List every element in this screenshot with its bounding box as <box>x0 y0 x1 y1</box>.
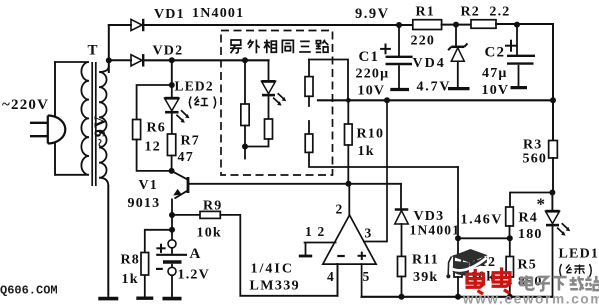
resistor R5 850 <box>506 257 513 278</box>
node top rail / C1 <box>396 22 402 28</box>
ground (transformer secondary) <box>98 294 118 299</box>
wire right column upper stub (dead end) <box>308 96 310 106</box>
transformer T primary winding <box>55 62 89 175</box>
svg-text:R11: R11 <box>412 253 439 268</box>
resistor R1 220 <box>413 20 442 30</box>
svg-text:39k: 39k <box>413 270 438 285</box>
ground foot (VD4) <box>448 87 470 90</box>
transformer T secondary winding <box>99 66 109 186</box>
wire pin2 output riser <box>348 184 350 215</box>
wire pin4 inverting input <box>337 264 339 296</box>
svg-text:220μ: 220μ <box>356 67 390 82</box>
svg-text:R3: R3 <box>523 138 543 153</box>
svg-text:1k: 1k <box>122 272 139 287</box>
svg-text:R4: R4 <box>519 211 539 226</box>
node VCC line / R3 branch <box>550 97 556 103</box>
svg-text:220: 220 <box>411 34 436 49</box>
svg-text:R2 2.2: R2 2.2 <box>461 5 511 20</box>
resistor channel2 left (replica) <box>241 104 249 126</box>
diode VD2 1N4001 <box>131 54 143 66</box>
resistor R11 39k <box>398 256 406 276</box>
wire V1 base line to comparator output node <box>189 183 349 185</box>
wire top rail from VD1 anode corner to R1 <box>109 24 131 26</box>
svg-text:C2: C2 <box>485 45 506 61</box>
resistor R8 1k <box>141 253 149 276</box>
wire VCC line (post-R2 supply) <box>318 99 553 101</box>
resistor channel2 right (replica) <box>265 119 273 139</box>
transistor V1 9013 <box>172 171 188 215</box>
svg-text:4.7V: 4.7V <box>417 80 452 95</box>
wire channel2 right branch corner <box>268 60 270 80</box>
svg-text:VD4: VD4 <box>413 56 446 71</box>
LED2 red indicator <box>165 98 190 123</box>
svg-text:*: * <box>537 195 546 214</box>
node channel2 bottom <box>242 144 248 150</box>
svg-text:10V: 10V <box>358 84 386 99</box>
svg-text:V1: V1 <box>139 178 159 193</box>
svg-text:4: 4 <box>327 269 335 284</box>
wire R3 bottom to LED1 node <box>552 158 554 193</box>
svg-text:VD2: VD2 <box>153 44 184 59</box>
wire R9 to LM339 pin 4 <box>220 215 337 296</box>
wire pin12 ground lead <box>305 242 336 244</box>
node battery / R8 split <box>169 227 175 233</box>
wire LED1 anode <box>551 193 553 211</box>
watermark red bug characters <box>466 269 485 294</box>
node R4 / R5 <box>507 235 513 241</box>
resistor R10 1k <box>345 124 353 145</box>
svg-text:R1: R1 <box>416 5 436 20</box>
wire LED1 cathode to ground rail <box>552 227 554 297</box>
LED1 green indicator <box>546 211 571 235</box>
svg-text:1N4001: 1N4001 <box>410 223 461 238</box>
node comparator output / R10 / base line <box>346 181 352 187</box>
wire emitter node to R9 <box>172 214 200 216</box>
node ground rail / R11 <box>399 294 405 300</box>
dashed box: other three identical channels <box>221 31 333 176</box>
svg-text:C1: C1 <box>359 49 380 65</box>
node VD2 line / LED2 branch <box>169 57 175 63</box>
wire top rail R1 to R2 <box>442 24 471 26</box>
resistor R12 10k <box>454 256 462 277</box>
ground (R8) <box>136 275 153 298</box>
capacitor C2 47u 10V <box>507 56 535 88</box>
svg-text:1 2: 1 2 <box>305 224 325 239</box>
resistor R6 12 <box>133 120 141 140</box>
svg-text:47: 47 <box>178 150 194 165</box>
wire bottom ground rail <box>362 296 553 298</box>
svg-text:R7: R7 <box>181 134 201 149</box>
wire R11 bottom to ground rail <box>401 277 403 297</box>
wire pin3 VCC lead <box>364 100 387 241</box>
zener diode VD4 4.7V <box>448 43 467 61</box>
wire R4 bottom to node <box>509 226 511 238</box>
ground (battery) <box>163 295 182 299</box>
wire plug to primary top <box>54 62 56 116</box>
wire node to R4 branch <box>510 193 552 208</box>
capacitor C1 220u 10V <box>386 57 413 90</box>
svg-text:180: 180 <box>518 227 543 242</box>
svg-text:2: 2 <box>336 202 344 217</box>
node R3 / LED1 / R4 <box>549 190 555 196</box>
wire top rail VD1 cathode to R1 <box>145 24 413 26</box>
wire node to R5 <box>509 238 511 256</box>
svg-text:1k: 1k <box>358 144 375 159</box>
svg-text:LM339: LM339 <box>250 279 301 294</box>
node 1.46V (R12/R4 junction) <box>455 235 461 241</box>
svg-text:12: 12 <box>145 140 161 155</box>
svg-text:1.2V: 1.2V <box>178 268 210 283</box>
node top rail / C2 <box>514 22 520 28</box>
wire 1.46V node to R4/R5 column <box>458 237 510 239</box>
node top rail / VD4 <box>453 22 459 28</box>
resistor right column lower (replica) <box>305 134 313 152</box>
svg-text:~220V: ~220V <box>2 97 49 113</box>
label + (battery) <box>156 244 165 253</box>
label - input sign <box>337 255 345 257</box>
node R10 top on VCC line <box>346 98 351 103</box>
svg-text:R5: R5 <box>518 258 538 273</box>
wire C2 positive lead <box>516 25 518 55</box>
label (green) for LED1 <box>560 264 592 277</box>
wire right column top link <box>309 60 348 101</box>
svg-text:R9: R9 <box>203 199 223 214</box>
label + (C2) <box>505 40 517 52</box>
watermark graduation cap logo <box>446 249 488 278</box>
wire R10 bottom to output node <box>347 145 349 184</box>
battery A 1.2V terminals and plates <box>156 240 187 275</box>
svg-text:3: 3 <box>365 226 373 241</box>
svg-text:10V: 10V <box>482 83 510 98</box>
resistor R2 2.2 <box>471 20 496 29</box>
wire plug to primary bottom <box>54 144 56 175</box>
wire right column lower stub <box>308 121 310 134</box>
wire VD2 anode stub <box>109 59 131 61</box>
wire output node to VD3 branch <box>349 183 402 185</box>
wire channel2 resistor to bottom node <box>245 139 269 147</box>
svg-text:1/4IC: 1/4IC <box>251 262 294 277</box>
wire secondary bottom to ground <box>107 186 109 294</box>
wire battery bottom to ground <box>171 275 173 294</box>
svg-text:R6: R6 <box>147 121 167 136</box>
wire to R6 top <box>137 85 172 120</box>
wire right column to sense line <box>309 152 458 167</box>
wire to R8 <box>145 230 172 253</box>
wire VD2 cathode line to dashed box channel <box>145 59 269 61</box>
svg-text:560: 560 <box>523 152 548 167</box>
wire channel2 left branch <box>244 60 246 104</box>
svg-text:9013: 9013 <box>128 196 161 211</box>
wire channel2 LED to resistor <box>268 97 270 119</box>
svg-text:R8: R8 <box>121 253 141 268</box>
wire emitter node down <box>171 215 173 230</box>
svg-text:Q606.COM: Q606.COM <box>0 284 58 298</box>
ground (LM339 pin 12) <box>299 243 312 257</box>
wire R10 top from VCC <box>347 100 349 124</box>
wire pin5 non-inverting input <box>361 264 363 297</box>
transformer T core <box>92 62 96 186</box>
svg-text:www.eeworm.com: www.eeworm.com <box>462 292 599 305</box>
wire VD3 anode to R11 <box>401 224 403 256</box>
wire right column top corner down <box>308 60 310 77</box>
resistor R9 10k <box>200 211 220 218</box>
svg-text:VD1: VD1 <box>154 7 185 22</box>
watermark grey site name (electronics download site) <box>521 275 534 289</box>
svg-text:1.46V: 1.46V <box>461 213 504 228</box>
node ground rail / R12 <box>455 294 461 300</box>
svg-text:1N4001: 1N4001 <box>192 6 244 21</box>
svg-text:T: T <box>88 43 99 59</box>
wire C1 positive lead <box>398 25 400 56</box>
plug P (mains) <box>48 116 66 144</box>
wire node to R12 <box>457 238 459 256</box>
wire top rail R2 to right corner down to R3 <box>496 24 553 141</box>
label (red) for LED2 <box>189 97 215 109</box>
resistor R4 180 <box>506 207 514 226</box>
wire R5 bottom to ground rail <box>509 277 511 297</box>
op-amp U1 1/4 LM339 comparator triangle <box>323 215 376 264</box>
node transformer secondary top / VD2 anode <box>106 57 112 63</box>
LED channel2 (replica) <box>262 81 287 105</box>
node LM339 pin3 on VCC line <box>384 97 390 103</box>
wire channel2 left resistor to bottom node <box>244 126 246 147</box>
resistor right column upper (replica R10) <box>305 77 313 97</box>
node ground rail / R5 <box>507 294 513 300</box>
label + (C1) <box>380 44 391 55</box>
wire R6 bottom to collector node <box>137 140 172 171</box>
resistor R3 560 <box>549 141 558 159</box>
label box title (another identical three channels) <box>230 40 242 53</box>
wire VD4 cathode lead <box>455 25 457 46</box>
diode VD3 1N4001 <box>395 210 409 225</box>
wire battery top terminal <box>171 230 173 240</box>
node channel2 top on VD2 line <box>242 57 248 63</box>
svg-text:~9V: ~9V <box>92 115 109 147</box>
svg-text:9.9V: 9.9V <box>355 6 390 22</box>
wire sense line down to 1.46V node <box>457 167 459 238</box>
label + input sign <box>358 252 366 260</box>
wire VD2 line down to LED2 node <box>171 60 173 85</box>
svg-text:5: 5 <box>363 269 371 284</box>
node V1 collector junction <box>169 168 175 174</box>
wire secondary top to VD1/VD2 junction <box>108 25 110 72</box>
node V1 emitter / R9 <box>169 212 175 218</box>
svg-text:LED2: LED2 <box>175 79 214 94</box>
svg-text:47μ: 47μ <box>482 66 508 81</box>
wire VD4 anode lead <box>457 61 459 86</box>
resistor R7 47 <box>167 134 175 156</box>
wire R12 bottom to ground rail <box>457 277 459 297</box>
wire output line down to VD3 <box>400 184 402 209</box>
svg-text:A: A <box>190 246 202 262</box>
svg-text:R10: R10 <box>357 127 385 142</box>
diode VD1 1N4001 <box>131 19 143 31</box>
wire LED2 node down <box>171 85 173 98</box>
wire channel2 stub down (to other transistor) <box>244 147 246 159</box>
label - (battery) <box>156 268 163 270</box>
svg-text:10k: 10k <box>197 226 222 241</box>
svg-text:LED1: LED1 <box>559 247 599 262</box>
wire R7 bottom to collector node <box>171 156 173 171</box>
wire LED2 to R7 <box>171 114 173 134</box>
node LED2 / R6 split <box>169 82 175 88</box>
